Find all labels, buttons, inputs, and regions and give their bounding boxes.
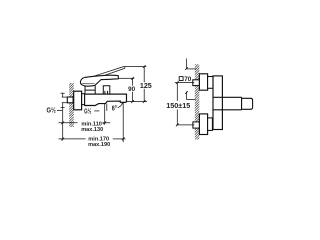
main body + spout outline [85, 94, 127, 105]
svg-text:90: 90 [128, 86, 136, 93]
svg-text:max.130: max.130 [81, 127, 103, 133]
body top edge emphasized [85, 93, 127, 95]
bottom escutcheon [199, 114, 207, 135]
G1/2 callout bracket (left) [57, 93, 67, 140]
top union nut [208, 77, 213, 89]
diverter knob on body top [103, 86, 110, 94]
pipe stub square through wall [67, 97, 73, 103]
body (top view vertical rect) [213, 76, 222, 130]
dim 90 [119, 77, 135, 103]
dim square70 [185, 59, 196, 100]
cartridge block under handle [85, 86, 95, 95]
handle lever (closed) [80, 75, 118, 86]
svg-text:G½: G½ [84, 108, 91, 116]
svg-text:6°: 6° [112, 105, 117, 113]
phantom raised-handle lines [85, 66, 125, 81]
svg-text:max.190: max.190 [88, 142, 110, 148]
dim min110/max130 [59, 121, 111, 124]
escutcheon (side) [74, 91, 82, 110]
dim min170/max190 [59, 138, 126, 141]
wall hatched strip (right view) [191, 59, 201, 148]
top escutcheon [199, 74, 207, 90]
under-spout extension lines [105, 103, 124, 143]
top pipe stub [193, 80, 200, 86]
dim 150+-15 [175, 81, 195, 126]
bottom union nut [208, 118, 213, 130]
wall hatched strip (left view) [64, 78, 74, 136]
dim 125 [125, 65, 147, 103]
bottom pipe stub [193, 122, 200, 128]
spout bar (top view) [213, 97, 242, 110]
handle inner line [82, 82, 94, 84]
svg-text:150±15: 150±15 [166, 101, 190, 110]
neck pipe between escutcheon and body [82, 94, 85, 105]
svg-text:70: 70 [184, 76, 192, 83]
svg-text:125: 125 [140, 82, 152, 90]
aerator cap (top view) [242, 98, 253, 109]
svg-text:G½: G½ [47, 105, 56, 114]
